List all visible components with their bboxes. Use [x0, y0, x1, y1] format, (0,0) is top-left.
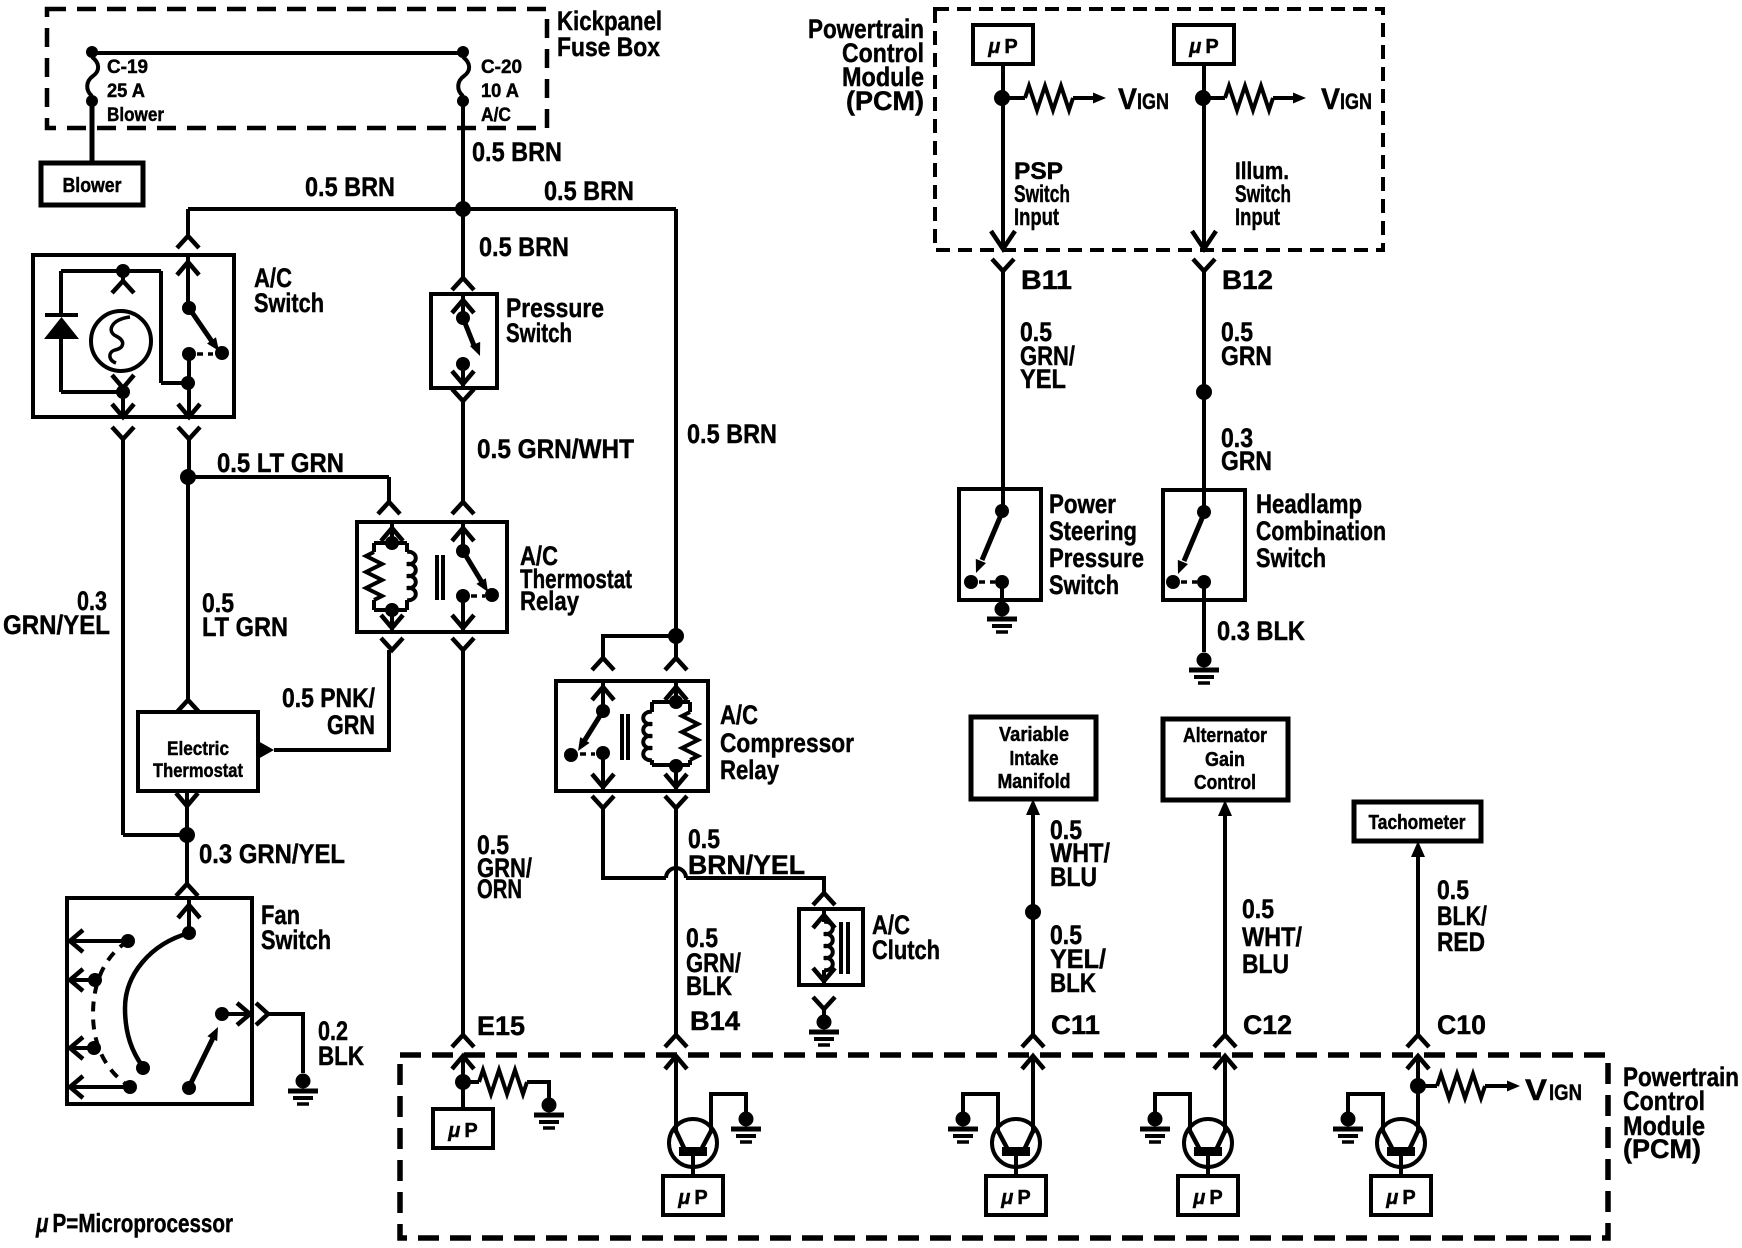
svg-text:C-19: C-19 — [107, 57, 148, 78]
wire — [187, 354, 191, 417]
svg-text:0.5 BRN: 0.5 BRN — [687, 419, 777, 449]
fan switch position arc (dashed) — [93, 941, 130, 1087]
junction — [1195, 90, 1211, 106]
wire 0.5 BRN bus — [188, 207, 676, 211]
wire — [963, 1094, 998, 1132]
wire — [90, 101, 95, 163]
connector at A/C switch — [177, 236, 199, 248]
connector forks below A/C switch — [112, 427, 134, 439]
wire 0.5 LT GRN down — [186, 477, 190, 700]
wire — [1014, 1156, 1018, 1176]
arrow into VIM — [1026, 799, 1040, 815]
microprocessor U (uP) — [433, 1109, 493, 1148]
wire 0.5 GRN/BLK to B14 — [674, 808, 678, 1035]
transistor collector/emitter wires — [1416, 1056, 1420, 1133]
junction — [455, 201, 471, 217]
wire — [1206, 1156, 1210, 1176]
relay core — [435, 555, 439, 600]
connector — [176, 884, 198, 896]
ground — [1148, 1112, 1163, 1127]
ground — [296, 1074, 311, 1089]
fan switch ground contact — [215, 1007, 229, 1021]
mechanical link (dashed) — [197, 352, 213, 356]
svg-text:μ P=Microprocessor: μ P=Microprocessor — [35, 1208, 233, 1238]
svg-text:Manifold: Manifold — [998, 771, 1071, 793]
svg-text:(PCM): (PCM) — [846, 86, 924, 116]
svg-text:Input: Input — [1014, 204, 1059, 231]
svg-text:Switch: Switch — [1049, 570, 1119, 600]
svg-text:BLK: BLK — [318, 1041, 364, 1071]
A/C thermostat relay box — [357, 522, 507, 632]
connector B11 — [992, 259, 1014, 271]
pressure switch box — [431, 294, 497, 388]
wire — [161, 381, 188, 385]
A/C switch box — [33, 255, 234, 417]
svg-text:A/C: A/C — [481, 105, 511, 126]
wire — [603, 636, 676, 658]
wire — [187, 898, 191, 933]
A/C switch contact — [182, 301, 196, 315]
electric thermostat — [138, 712, 258, 791]
junction — [180, 469, 196, 485]
svg-text:0.5 BRN: 0.5 BRN — [305, 172, 395, 202]
connector forks below thermostat relay — [381, 638, 403, 650]
fan switch position 1 — [121, 934, 135, 948]
fuse C-20 — [457, 46, 469, 58]
transistor collector/emitter wires — [1223, 1056, 1227, 1133]
svg-text:μ P: μ P — [1192, 1187, 1222, 1209]
wire — [1399, 1156, 1403, 1176]
transistor — [669, 1119, 717, 1167]
ground — [956, 1112, 971, 1127]
junction — [116, 264, 130, 278]
svg-text:Switch: Switch — [254, 288, 324, 318]
ground — [1197, 653, 1212, 668]
kickpanel fuse box (dashed) — [47, 9, 547, 128]
svg-text:Relay: Relay — [520, 586, 579, 616]
A/C clutch box — [799, 909, 863, 985]
svg-text:0.3 BLK: 0.3 BLK — [1217, 616, 1305, 646]
connector — [813, 997, 835, 1009]
svg-text:Input: Input — [1235, 204, 1280, 231]
connector arrows at box bottom — [112, 404, 134, 417]
connector forks below compressor relay — [592, 796, 614, 808]
svg-text:BLU: BLU — [1242, 949, 1289, 979]
arrow at PCM edge — [1192, 231, 1216, 249]
indicator lamp — [91, 311, 151, 371]
svg-text:GRN: GRN — [327, 710, 375, 740]
svg-text:Combination: Combination — [1256, 516, 1386, 546]
wire 0.5 LT GRN to thermostat relay — [188, 475, 389, 479]
junction — [1410, 1078, 1426, 1094]
svg-text:YEL: YEL — [1020, 364, 1066, 394]
ground — [1341, 1112, 1356, 1127]
fuse C-19 — [86, 46, 98, 58]
powertrain control module box (dashed) — [400, 1055, 1608, 1238]
svg-text:V: V — [1525, 1074, 1547, 1107]
relay switch — [461, 522, 465, 551]
blower motor — [41, 163, 143, 205]
wire — [187, 439, 191, 477]
wire — [185, 791, 189, 835]
fan switch common contact — [182, 926, 196, 940]
svg-text:Variable: Variable — [999, 724, 1069, 746]
svg-text:C12: C12 — [1243, 1010, 1292, 1040]
svg-text:25 A: 25 A — [107, 81, 145, 102]
microprocessor U (&#956;P) — [663, 1176, 723, 1215]
connector — [121, 271, 125, 280]
wire 0.5 GRN — [1202, 271, 1206, 392]
transistor — [1184, 1119, 1232, 1167]
junction — [181, 376, 195, 390]
connector C12 arrow — [1214, 1056, 1236, 1069]
svg-text:μ P: μ P — [677, 1187, 707, 1209]
svg-text:Blower: Blower — [107, 105, 165, 126]
svg-text:Tachometer: Tachometer — [1369, 812, 1466, 834]
wire 0.3 GRN/YEL — [121, 439, 125, 835]
connector — [176, 793, 198, 806]
svg-text:μ P: μ P — [1188, 36, 1218, 58]
pressure switch blade — [463, 318, 475, 348]
connector C10 arrow — [1407, 1056, 1429, 1069]
wire — [186, 255, 190, 308]
svg-text:V: V — [1118, 83, 1137, 116]
svg-text:WHT/: WHT/ — [1242, 922, 1302, 952]
svg-text:GRN: GRN — [1221, 341, 1272, 371]
svg-text:C-20: C-20 — [481, 57, 522, 78]
fan switch wiper arc — [125, 933, 189, 1067]
wire 0.5 BRN/YEL to A/C clutch — [603, 808, 666, 878]
connector B12 — [1193, 259, 1215, 271]
svg-text:0.5: 0.5 — [1242, 894, 1274, 924]
svg-text:(PCM): (PCM) — [1623, 1134, 1701, 1164]
svg-text:Headlamp: Headlamp — [1256, 489, 1362, 519]
A/C switch blade — [189, 308, 213, 343]
connector — [452, 389, 474, 401]
wire 0.5 BLK/RED — [1416, 854, 1420, 1035]
junction — [455, 1074, 471, 1090]
PSP switch contact — [1001, 489, 1005, 511]
junction — [179, 827, 195, 843]
clutch coil — [822, 909, 826, 922]
headlamp switch contact — [1202, 490, 1206, 512]
svg-text:B11: B11 — [1021, 265, 1072, 295]
pressure switch contact — [456, 311, 470, 325]
svg-text:Switch: Switch — [1256, 543, 1326, 573]
wire — [1000, 582, 1004, 601]
svg-text:10 A: 10 A — [481, 81, 519, 102]
relay core — [620, 714, 624, 760]
svg-text:E15: E15 — [477, 1011, 525, 1041]
pull-up resistor to VIGN — [1203, 96, 1225, 100]
svg-text:BRN/YEL: BRN/YEL — [688, 850, 805, 880]
svg-text:0.5 BRN: 0.5 BRN — [544, 176, 634, 206]
transistor — [992, 1119, 1040, 1167]
PSP switch blade — [982, 515, 1001, 560]
power steering pressure switch box — [959, 489, 1041, 600]
svg-text:Switch: Switch — [506, 318, 572, 348]
svg-text:Clutch: Clutch — [872, 935, 940, 965]
svg-text:GRN: GRN — [1221, 446, 1272, 476]
svg-text:IGN: IGN — [1137, 89, 1169, 114]
microprocessor U (&#956;P) — [986, 1176, 1046, 1215]
wire 0.2 BLK — [268, 1014, 303, 1073]
connector C11 arrow — [1022, 1056, 1044, 1069]
junction — [1196, 384, 1212, 400]
svg-text:B12: B12 — [1222, 265, 1273, 295]
svg-text:IGN: IGN — [1340, 89, 1372, 114]
wire — [1416, 1056, 1420, 1133]
svg-text:Intake: Intake — [1010, 748, 1059, 770]
PSP switch contacts — [964, 575, 978, 589]
svg-text:Fuse Box: Fuse Box — [557, 32, 660, 62]
wire 0.5 BRN down right branch — [674, 209, 678, 636]
svg-text:Compressor: Compressor — [720, 728, 854, 758]
svg-text:LT GRN: LT GRN — [202, 612, 288, 642]
svg-text:μ P: μ P — [987, 36, 1017, 58]
diode — [59, 271, 63, 315]
svg-text:0.5 LT GRN: 0.5 LT GRN — [217, 448, 344, 478]
junction — [994, 90, 1010, 106]
relay coil branch — [390, 522, 394, 543]
svg-text:RED: RED — [1437, 927, 1485, 957]
ground — [817, 1015, 832, 1030]
svg-text:GRN/YEL: GRN/YEL — [3, 610, 110, 640]
svg-text:C10: C10 — [1437, 1010, 1486, 1040]
svg-text:B14: B14 — [690, 1006, 740, 1036]
svg-text:0.5 PNK/: 0.5 PNK/ — [282, 683, 375, 713]
pull-down resistor — [463, 1080, 479, 1084]
svg-text:BLK: BLK — [1050, 968, 1096, 998]
svg-text:Alternator: Alternator — [1183, 725, 1267, 747]
wire — [461, 1056, 465, 1109]
wire 0.5 WHT/BLU — [1031, 812, 1035, 1035]
svg-text:A/C: A/C — [720, 700, 758, 730]
wire 0.5 BRN from fuse C-20 — [461, 101, 465, 209]
microprocessor U (&#956;P) — [1178, 1176, 1238, 1215]
wire 0.5 GRN/WHT — [461, 401, 465, 502]
arrow into tachometer — [1411, 841, 1425, 857]
pressure switch contact — [456, 357, 470, 371]
microprocessor U (&#956;P) — [1371, 1176, 1431, 1215]
microprocessor U (uP) left — [973, 25, 1033, 64]
svg-text:Relay: Relay — [720, 755, 779, 785]
electric thermostat output tag — [258, 741, 274, 759]
svg-text:0.5 BRN: 0.5 BRN — [479, 232, 569, 262]
tachometer box — [1354, 802, 1481, 841]
svg-text:BLU: BLU — [1050, 862, 1097, 892]
wire lamp feed — [61, 269, 161, 273]
transistor collector/emitter wires — [674, 1056, 678, 1133]
connector — [813, 893, 835, 905]
svg-text:Thermostat: Thermostat — [153, 761, 244, 782]
svg-text:IGN: IGN — [1549, 1080, 1582, 1105]
svg-text:BLK: BLK — [686, 971, 732, 1001]
wire 0.5 GRN/ORN to E15 — [461, 650, 465, 1035]
arrow at PCM edge — [991, 231, 1015, 249]
wire — [61, 390, 123, 394]
transistor — [1377, 1119, 1425, 1167]
headlamp combination switch box — [1163, 490, 1245, 600]
svg-text:C11: C11 — [1051, 1010, 1100, 1040]
svg-text:V: V — [1321, 83, 1340, 116]
microprocessor U (uP) right — [1174, 25, 1234, 64]
wire — [461, 294, 465, 318]
fan switch position 4 — [123, 1080, 137, 1094]
resistor to VIGN — [1418, 1084, 1437, 1088]
connector forks above thermostat relay — [378, 502, 400, 514]
clutch core — [839, 922, 843, 974]
svg-text:μ P: μ P — [447, 1120, 477, 1142]
svg-text:Pressure: Pressure — [1049, 543, 1144, 573]
svg-text:Steering: Steering — [1049, 516, 1137, 546]
powertrain control module box (dashed) — [935, 9, 1383, 250]
connector — [177, 700, 199, 712]
svg-text:Switch: Switch — [261, 925, 331, 955]
wire 0.5 WHT/BLU — [1223, 813, 1227, 1035]
svg-text:ORN: ORN — [477, 874, 522, 904]
junction — [116, 385, 130, 399]
wire 0.5 GRN/YEL — [1001, 271, 1005, 489]
fan switch ground blade — [182, 1081, 196, 1095]
wire 0.3 BLK — [1202, 582, 1206, 652]
wire — [92, 51, 463, 55]
junction — [1025, 904, 1041, 920]
transistor collector/emitter wires — [1031, 1056, 1035, 1133]
wire 0.5 BRN down to pressure switch — [461, 209, 465, 278]
compressor relay switch — [601, 681, 605, 711]
headlamp switch contacts — [1166, 575, 1180, 589]
variable intake manifold box — [971, 717, 1096, 799]
wire — [461, 364, 465, 388]
A/C compressor relay box — [556, 681, 708, 791]
svg-text:Blower: Blower — [63, 175, 122, 197]
fan switch position 3 — [87, 1041, 101, 1055]
svg-text:Control: Control — [1194, 772, 1256, 794]
connector — [452, 278, 474, 290]
wire 0.5 PNK/GRN — [274, 650, 389, 750]
ground — [542, 1098, 557, 1113]
junction — [668, 628, 684, 644]
svg-text:μ P: μ P — [1000, 1187, 1030, 1209]
wire Illum switch input — [1202, 64, 1206, 248]
wire 0.3 GRN — [1202, 392, 1206, 490]
svg-text:μ P: μ P — [1385, 1187, 1415, 1209]
wire — [1348, 1094, 1383, 1132]
svg-text:Gain: Gain — [1205, 749, 1245, 771]
fan switch box — [67, 898, 252, 1104]
A/C switch contact — [182, 347, 196, 361]
wire PSP switch input — [1001, 64, 1005, 248]
wire — [691, 1156, 695, 1176]
wire — [186, 209, 190, 236]
svg-text:Power: Power — [1049, 489, 1116, 519]
compressor relay coil branch — [674, 681, 678, 702]
alternator gain control box — [1163, 719, 1288, 800]
connector — [112, 375, 134, 388]
wire 0.3 GRN/YEL to fan switch — [185, 835, 189, 884]
pull-up resistor to VIGN — [1002, 96, 1025, 100]
connector — [256, 1003, 268, 1025]
connector forks above compressor relay — [592, 658, 614, 670]
headlamp switch blade — [1184, 516, 1203, 561]
wire — [387, 477, 391, 502]
svg-text:0.5 BRN: 0.5 BRN — [472, 137, 562, 167]
svg-text:0.5 GRN/WHT: 0.5 GRN/WHT — [477, 434, 634, 464]
ground — [739, 1112, 754, 1127]
svg-text:0.3 GRN/YEL: 0.3 GRN/YEL — [199, 839, 345, 869]
svg-text:Electric: Electric — [167, 739, 229, 760]
ground — [995, 602, 1010, 617]
wire — [1155, 1094, 1190, 1132]
wire — [711, 1094, 746, 1132]
fan switch position 2 — [88, 973, 102, 987]
arrow into AGC — [1218, 800, 1232, 816]
